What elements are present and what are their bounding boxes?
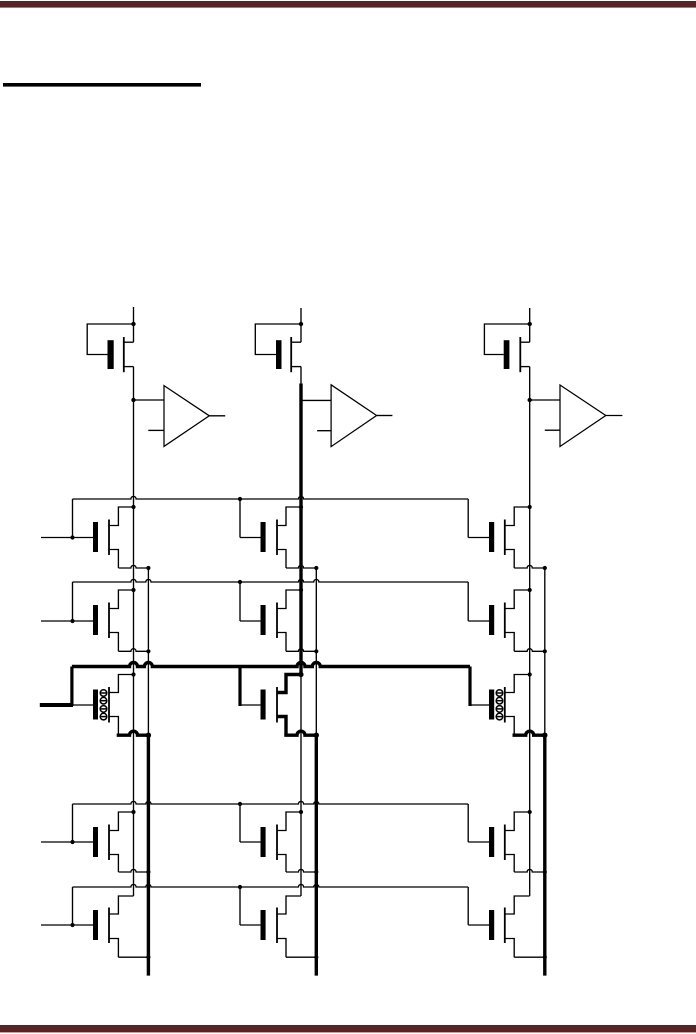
buffer U2 output wire [377,415,393,417]
node: WL1 tap junction column 1 [70,535,74,539]
wire: WL1 gate lead column 2 [240,537,261,539]
node: Q23 source junction on rail [543,649,547,653]
wire: Q52 source to ground rail [286,956,316,958]
node: Q32 source junction on rail [314,733,319,738]
node: Q13 source junction on rail [543,566,547,570]
pull-up QP2 source stub wire [291,366,301,368]
transistor Q43 source wire [505,855,514,873]
wire: WL2 left input stub and gate lead, column 1 [41,620,93,622]
node: drain junction of QP2 on BL2 [299,322,303,326]
transistor Q42 source wire [277,855,286,873]
node: Q12 drain junction on BL2 [299,505,303,509]
pull-up QP1 channel [123,337,125,372]
transistor Q41 drain wire to BL1 [109,812,134,831]
transistor Q52 source wire [277,939,286,958]
node: Q43 source junction on rail [543,870,547,874]
selected row input terminal wire (thick) [40,703,73,707]
wire: WL5 riser column 1 [72,887,74,925]
node: Q33 drain junction on BL3 [528,672,532,676]
node: Q51 source junction on rail [146,955,150,959]
wire: WL1 drop to column 3 gate [467,499,469,538]
transistor Q22 channel [276,603,278,639]
pull-up QP3 channel [519,337,521,372]
wire: WL2 gate lead column 2 [240,620,261,622]
transistor Q53 gate bar [489,910,494,940]
node: Q53 source junction on rail [543,955,547,959]
ground rail column 2 (upper thin segment) [315,568,317,735]
wire: WL4 drop to column 3 gate [467,804,469,842]
node: buffer U3 input junction on BL3 [528,398,532,402]
wire: Q11 source to ground rail [118,565,148,568]
wire: WL4 drop to column 2 gate [239,804,241,842]
transistor Q23 channel [504,603,506,639]
node: drain junction of QP1 on BL1 [131,322,135,326]
wire: WL4 left input stub and gate lead, column 1 [41,841,93,843]
wire: WL4 gate lead column 3 [468,841,489,843]
wire: Q43 source to ground rail [514,869,545,872]
wire: WL3 drop at right end (thick) [468,667,471,707]
ground rail column 2 (lower thick segment) [315,735,318,975]
transistor Q31 source wire [109,717,118,736]
wire: WL3 gate lead column 1 [73,704,93,706]
wire: Q32 source to ground rail [284,731,316,735]
wire: Q22 source to ground rail [286,649,316,652]
word line WL5 horizontal run (hops over bit lines / rails) [73,884,469,887]
transistor Q13 source wire [505,550,514,569]
node: WL1 tap junction column 2 [238,497,242,501]
ground rail column 1 (upper thin segment) [147,568,149,735]
transistor Q51 drain wire to BL1 [109,896,134,914]
wire: Q53 source to ground rail [514,956,545,958]
wire: WL1 gate lead column 3 [468,537,489,539]
wire: WL5 gate lead column 2 [240,924,261,926]
programmed floating-gate marks on transistor Q33 [496,690,503,720]
transistor Q13 channel [504,520,506,556]
heading underline rule [3,83,201,87]
transistor Q21 channel [108,603,110,639]
transistor Q23 source wire [505,633,514,652]
node: Q32 drain junction on BL2 [298,672,303,677]
node: WL5 tap junction column 2 [238,885,242,889]
node: WL2 tap junction column 2 [238,580,242,584]
node: Q11 drain junction on BL1 [131,505,135,509]
transistor Q22 gate bar [261,605,266,635]
transistor Q11 channel [108,520,110,556]
transistor Q11 drain wire to BL1 [109,507,134,526]
node: WL5 tap junction column 1 [70,923,74,927]
node: Q11 source junction on rail [146,566,150,570]
bit line BL3 (column 3) [529,308,531,342]
transistor Q52 channel [276,908,278,944]
wire: WL3 drop to column 2 gate (thick) [238,667,241,707]
wire: WL2 riser column 1 [72,582,74,621]
node: buffer U1 input junction on BL1 [131,398,135,402]
word line WL1 horizontal run (hops over bit lines / rails) [73,496,469,499]
transistor Q32 channel [276,687,278,723]
buffer U1 enable stub wire [148,429,164,431]
node: Q22 source junction on rail [314,649,318,653]
wire: Q13 source to ground rail [514,565,545,568]
node: Q52 source junction on rail [314,955,318,959]
buffer U2 enable stub wire [317,430,331,432]
node: Q41 source junction on rail [146,870,150,874]
transistor Q21 source wire [109,633,118,652]
ground rail column 3 (lower thick segment) [543,735,546,975]
node: Q22 drain junction on BL2 [299,588,303,592]
header bar [0,1,696,8]
transistor Q31 drain wire to BL1 [109,675,134,693]
transistor Q21 drain wire to BL1 [109,590,134,609]
transistor Q32 gate bar [261,690,266,720]
transistor Q13 gate bar [489,522,494,552]
transistor Q41 channel [108,825,110,861]
wire: WL4 gate lead column 2 [240,841,261,843]
node: drain junction of QP3 on BL3 [528,322,532,326]
transistor Q31 gate bar [93,690,98,720]
transistor Q23 gate bar [489,605,494,635]
wire: Q23 source to ground rail [514,649,545,652]
wire: Q42 source to ground rail [286,869,316,872]
node: WL2 tap junction column 1 [70,619,74,623]
transistor Q22 source wire [277,633,286,652]
wire: Q12 source to ground rail [286,565,316,568]
transistor Q52 drain wire to BL2 [277,896,301,914]
transistor Q42 channel [276,825,278,861]
wire: WL2 drop to column 3 gate [467,582,469,621]
pull-up QP3 gate-to-drain feedback wire [484,324,529,355]
transistor Q51 channel [108,908,110,944]
buffer U1 input wire from BL1 [134,399,165,401]
transistor Q43 channel [504,825,506,861]
buffer U2 triangle [331,385,377,447]
node: Q13 drain junction on BL3 [528,505,532,509]
word line WL4 horizontal run (hops over bit lines / rails) [73,801,469,804]
transistor Q33 source wire [505,717,514,736]
wire: WL2 drop to column 2 gate [239,582,241,621]
wire: Q41 source to ground rail [118,869,148,872]
buffer U3 output wire [606,415,623,417]
transistor Q12 channel [276,520,278,556]
buffer U3 input wire from BL3 [530,399,560,401]
node: Q31 source junction on rail [146,733,151,738]
footer bar [0,1025,696,1032]
transistor Q21 gate bar [93,605,98,635]
node: Q42 drain junction on BL2 [299,810,303,814]
transistor Q32 source wire [277,717,286,736]
transistor Q11 gate bar [93,522,98,552]
transistor Q42 gate bar [261,827,266,857]
transistor Q32 drain wire to BL2 [277,675,301,693]
wire: WL5 left input stub and gate lead, column 1 [41,924,93,926]
wire: WL3 gate lead column 2 [240,704,261,706]
pull-up QP2 channel [290,337,292,372]
pull-up QP1 drain stub wire [124,341,134,343]
transistor Q53 source wire [505,939,514,958]
pull-up QP2 gate-to-drain feedback wire [255,324,301,355]
wire: WL5 drop to column 3 gate [467,887,469,925]
transistor Q12 source wire [277,550,286,569]
pull-up QP1 gate-to-drain feedback wire [87,324,133,355]
word line WL3 horizontal run (thick, hops over bit lines / rails) [72,663,470,667]
programmed floating-gate marks on transistor Q31 [100,690,107,720]
wire: Q33 source to ground rail [513,731,545,735]
ground rail column 1 (lower thick segment) [147,735,150,975]
bit line BL1 (column 1) [133,307,135,342]
word line WL2 horizontal run (hops over bit lines / rails) [73,579,469,582]
pull-up QP3 source stub wire [520,366,529,368]
wire: WL3 gate lead column 3 [470,704,489,706]
node: Q31 drain junction on BL1 [131,672,135,676]
buffer U2 input wire from BL2 [301,399,331,401]
transistor Q33 channel [504,687,506,723]
transistor Q12 drain wire to BL2 [277,507,301,526]
transistor Q42 drain wire to BL2 [277,812,301,831]
node: Q43 drain junction on BL3 [528,810,532,814]
transistor Q11 source wire [109,550,118,569]
node: Q23 drain junction on BL3 [528,588,532,592]
pull-up load transistor QP3 gate bar [504,340,510,369]
wire: Q21 source to ground rail [118,649,148,652]
buffer U1 output wire [209,415,225,417]
pull-up load transistor QP2 gate bar [276,340,282,369]
transistor Q43 gate bar [489,827,494,857]
wire: WL1 drop to column 2 gate [239,499,241,538]
wire: WL2 gate lead column 3 [468,620,489,622]
node: Q21 drain junction on BL1 [131,588,135,592]
node: Q21 source junction on rail [146,649,150,653]
ground rail column 3 (upper thin segment) [544,568,546,735]
transistor Q51 gate bar [93,910,98,940]
transistor Q53 channel [504,908,506,944]
buffer U3 triangle [560,385,606,447]
transistor Q23 drain wire to BL3 [505,590,530,609]
transistor Q41 gate bar [93,827,98,857]
node: WL4 tap junction column 2 [238,802,242,806]
wire: Q51 source to ground rail [118,956,148,958]
wire: WL1 riser column 1 [72,499,74,538]
buffer U1 triangle [164,386,209,447]
node: Q12 source junction on rail [314,566,318,570]
bit line BL2 (column 2, selected: thick) [300,308,302,342]
pull-up QP3 drain stub wire [520,341,529,343]
transistor Q41 source wire [109,855,118,873]
transistor Q52 gate bar [261,910,266,940]
node: Q41 drain junction on BL1 [131,810,135,814]
transistor Q53 drain wire to BL3 [505,896,530,914]
node: Q42 source junction on rail [314,870,318,874]
wire: WL3 riser column 1 (thick) [70,667,73,707]
wire: Q31 source to ground rail [117,731,149,735]
transistor Q51 source wire [109,939,118,958]
transistor Q31 channel [108,687,110,723]
wire: WL5 drop to column 2 gate [239,887,241,925]
transistor Q33 gate bar [489,690,494,720]
transistor Q43 drain wire to BL3 [505,812,530,831]
transistor Q22 drain wire to BL2 [277,590,301,609]
transistor Q13 drain wire to BL3 [505,507,530,526]
pull-up load transistor QP1 gate bar [108,340,114,369]
node: WL4 tap junction column 1 [70,840,74,844]
wire: WL5 gate lead column 3 [468,924,489,926]
wire: WL4 riser column 1 [72,804,74,842]
transistor Q12 gate bar [261,522,266,552]
pull-up QP1 source stub wire [124,366,134,368]
pull-up QP2 drain stub wire [291,341,301,343]
transistor Q33 drain wire to BL3 [505,675,530,693]
node: Q33 source junction on rail [542,733,547,738]
wire: WL1 left input stub and gate lead, column 1 [41,537,93,539]
buffer U3 enable stub wire [545,429,560,431]
